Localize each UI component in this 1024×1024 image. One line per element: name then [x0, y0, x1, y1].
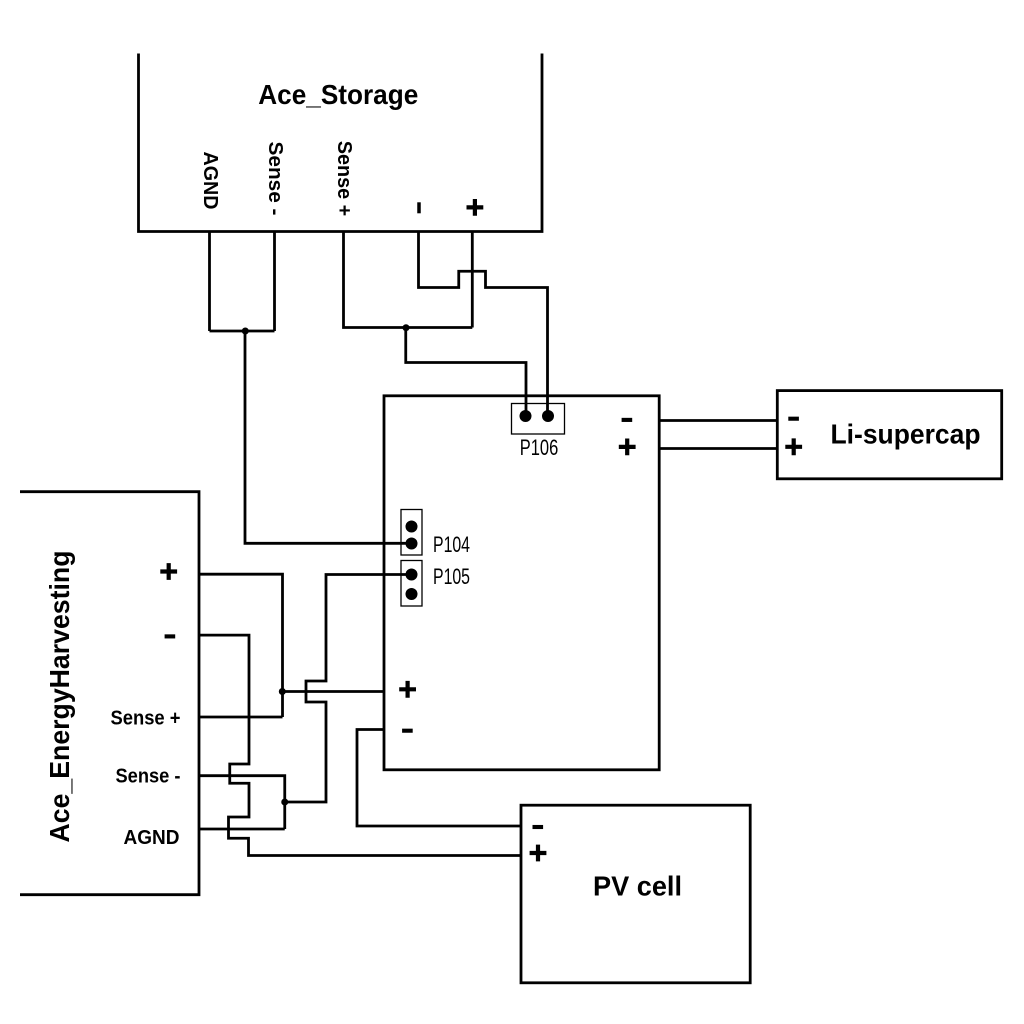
- svg-text:P105: P105: [433, 564, 470, 589]
- svg-text:PV cell: PV cell: [593, 871, 682, 902]
- svg-text:P106: P106: [520, 435, 559, 460]
- svg-text:Ace_EnergyHarvesting: Ace_EnergyHarvesting: [44, 551, 75, 843]
- svg-text:AGND: AGND: [199, 152, 221, 210]
- svg-text:Ace_Storage: Ace_Storage: [258, 79, 418, 110]
- svg-text:Li-supercap: Li-supercap: [831, 419, 981, 450]
- svg-text:Sense +: Sense +: [333, 141, 355, 217]
- svg-text:Sense -: Sense -: [116, 765, 181, 787]
- svg-text:Sense -: Sense -: [264, 142, 286, 216]
- svg-text:Sense +: Sense +: [111, 707, 181, 729]
- svg-text:P104: P104: [433, 532, 470, 557]
- svg-text:AGND: AGND: [124, 827, 180, 849]
